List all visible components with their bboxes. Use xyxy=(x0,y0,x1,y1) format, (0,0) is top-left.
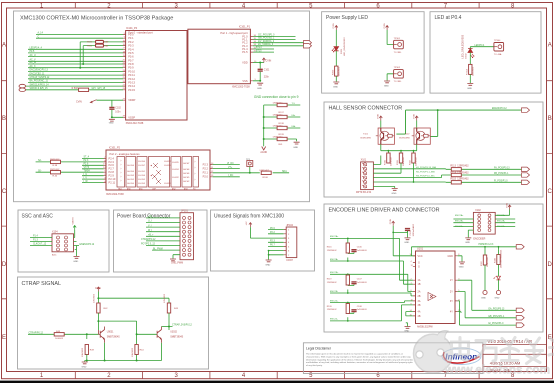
svg-text:VAG: VAG xyxy=(118,187,122,190)
section box HALL SENSOR CONNECTOR xyxy=(324,102,543,197)
transistor U3031 xyxy=(98,327,120,343)
wire bottom rail xyxy=(85,343,162,362)
svg-text:G0-CH0: G0-CH0 xyxy=(127,183,134,185)
svg-text:DNP0402: DNP0402 xyxy=(273,103,283,105)
wires into JP102 xyxy=(268,230,284,260)
svg-text:G0CH7: G0CH7 xyxy=(183,163,189,165)
svg-text:P0.14: P0.14 xyxy=(128,84,135,88)
svg-text:BCR108W: BCR108W xyxy=(361,138,372,140)
svg-text:VCC: VCC xyxy=(418,255,423,258)
svg-text:GND: GND xyxy=(465,242,470,244)
svg-text:of any third party.: of any third party. xyxy=(306,364,323,367)
resistor R117 xyxy=(483,255,486,265)
svg-text:10k/0603: 10k/0603 xyxy=(391,157,393,166)
svg-text:1000n/RAD2: 1000n/RAD2 xyxy=(412,223,415,236)
capacitor C102 xyxy=(109,107,114,109)
test point TP1 xyxy=(247,161,253,167)
net port flag FI xyxy=(522,180,530,184)
svg-text:C: C xyxy=(2,189,7,195)
svg-text:E: E xyxy=(2,335,6,341)
svg-text:CTRAP SIGNAL: CTRAP SIGNAL xyxy=(22,281,61,287)
svg-text:1Y: 1Y xyxy=(450,279,453,282)
svg-text:H1_POS/P0.13_INA: H1_POS/P0.13_INA xyxy=(416,166,436,169)
svg-text:P0.13: P0.13 xyxy=(128,80,135,84)
op-amp / MCU port IC101_P0 (Port 0) xyxy=(123,27,187,125)
IC101_P0 pin stubs xyxy=(123,35,126,118)
supply flag CVIN at T102 xyxy=(415,116,418,121)
connector JP101 (power board) xyxy=(171,210,194,265)
resistor R136 xyxy=(277,103,287,106)
svg-text:PWM/P0.12 t3: PWM/P0.12 t3 xyxy=(479,243,495,246)
net port flag EB xyxy=(516,316,524,320)
svg-text:D301: D301 xyxy=(341,48,343,54)
svg-text:VDD: VDD xyxy=(242,61,248,65)
supply flag CVIN at X102 xyxy=(508,205,511,210)
svg-text:FA_POS/P0.13: FA_POS/P0.13 xyxy=(494,166,510,169)
supply flag CVIN (CTRAP) xyxy=(97,287,100,292)
svg-text:LED/P0.4_4: LED/P0.4_4 xyxy=(30,48,43,50)
svg-text:G1-CH6: G1-CH6 xyxy=(138,175,145,177)
svg-text:TP301: TP301 xyxy=(394,38,401,40)
svg-text:www.elecfans.com: www.elecfans.com xyxy=(444,363,550,377)
wire base U3032 xyxy=(137,333,158,335)
svg-text:ENC2/ENC/P0.13: ENC2/ENC/P0.13 xyxy=(30,70,49,72)
svg-text:ENENC/P0.12: ENENC/P0.12 xyxy=(492,108,507,110)
svg-text:VDDP: VDDP xyxy=(128,98,135,102)
encoder input channel B resistor R119 network xyxy=(327,272,411,294)
svg-text:G0CH4: G0CH4 xyxy=(183,169,189,171)
supply flag CVIN at VDD xyxy=(253,62,264,64)
svg-text:H2_POS/P1.1_INB: H2_POS/P1.1_INB xyxy=(416,171,435,173)
net port flag P1.3 xyxy=(304,44,312,48)
net port flag ENENC xyxy=(522,108,530,112)
svg-text:EA_POS/P0.13: EA_POS/P0.13 xyxy=(489,307,506,310)
svg-text:P2.6: P2.6 xyxy=(109,163,115,167)
svg-text:P0.0: P0.0 xyxy=(128,33,134,37)
ground at TP302 xyxy=(384,81,390,83)
svg-text:XMC1302-T038: XMC1302-T038 xyxy=(232,86,250,89)
wire collector node T1 xyxy=(98,313,172,344)
svg-text:1B: 1B xyxy=(418,283,421,286)
svg-text:CVIN: CVIN xyxy=(384,23,386,29)
net labels for IC101_P0 wires xyxy=(30,32,51,90)
supply flag CVIN (testpoint column) xyxy=(386,26,389,31)
svg-text:4A: 4A xyxy=(418,311,421,314)
svg-text:AC_V: AC_V xyxy=(30,59,36,62)
section box Power Board Connector xyxy=(114,210,208,272)
svg-text:GND connection close to pin 9: GND connection close to pin 9 xyxy=(254,95,299,99)
svg-text:ENC2/CB2_11: ENC2/CB2_11 xyxy=(30,73,46,75)
svg-text:and liabilities of any kind, i: and liabilities of any kind, including w… xyxy=(306,361,413,364)
svg-text:GND: GND xyxy=(467,88,472,90)
svg-text:G1-0R4: G1-0R4 xyxy=(172,169,179,171)
svg-text:H3_POS/P1.0_INC: H3_POS/P1.0_INC xyxy=(416,176,435,178)
ground at ladder xyxy=(294,142,300,144)
svg-text:GND: GND xyxy=(82,366,87,368)
MCU port IC101_P1 (Port 1) xyxy=(188,26,257,89)
net port flag P1.2 xyxy=(304,41,312,45)
svg-text:ENC2Z-: ENC2Z- xyxy=(497,226,505,228)
svg-text:G1-0R5: G1-0R5 xyxy=(172,162,179,164)
resistor R110 xyxy=(387,153,390,163)
wires into X104 xyxy=(30,230,79,246)
svg-text:P0.7: P0.7 xyxy=(270,245,275,247)
svg-text:2A/_RADIOA_2: 2A/_RADIOA_2 xyxy=(258,40,275,43)
encoder input channel A resistor R116 network xyxy=(327,235,404,262)
wire VSSP xyxy=(112,110,123,118)
svg-text:JP101: JP101 xyxy=(181,210,188,213)
net labels JP102 xyxy=(270,228,275,247)
svg-text:AC_X: AC_X xyxy=(30,65,36,68)
svg-text:ENC2A+: ENC2A+ xyxy=(330,235,339,238)
connector X102 (encoder header) xyxy=(473,209,495,240)
svg-text:R303: R303 xyxy=(332,69,334,75)
svg-text:B: B xyxy=(2,116,6,122)
wire hall +5V rail to ENENC flag xyxy=(396,110,521,136)
svg-text:ENC2B+: ENC2B+ xyxy=(455,221,464,223)
transistor U3032 xyxy=(157,327,184,343)
hall input net labels xyxy=(416,166,436,178)
frame column numbers bottom xyxy=(40,373,515,379)
svg-text:IC101_P2: IC101_P2 xyxy=(109,147,121,150)
svg-text:C106: C106 xyxy=(357,247,363,249)
ground at R304 xyxy=(467,84,473,86)
svg-text:1k5/0603: 1k5/0603 xyxy=(339,66,341,76)
svg-text:P0.5: P0.5 xyxy=(30,51,35,53)
resistor R508 xyxy=(79,88,89,91)
svg-text:BCR108W: BCR108W xyxy=(399,138,410,140)
svg-text:R.38: R.38 xyxy=(53,165,58,167)
frame row letters left/right xyxy=(2,43,553,342)
svg-text:GND: GND xyxy=(404,242,409,244)
Infineon logo xyxy=(442,348,481,364)
wire R304 to GND xyxy=(469,74,471,83)
svg-text:120RS402: 120RS402 xyxy=(487,256,489,267)
test point TP304 xyxy=(494,43,504,52)
svg-text:T.3-: T.3- xyxy=(292,103,296,105)
svg-text:P2.0: P2.0 xyxy=(203,175,209,179)
svg-text:ENC2A-: ENC2A- xyxy=(497,214,505,217)
svg-text:GND: GND xyxy=(265,264,270,266)
svg-text:G0-CH3: G0-CH3 xyxy=(127,175,134,177)
svg-text:VDD5V: VDD5V xyxy=(73,217,75,225)
svg-text:R115 129RS402: R115 129RS402 xyxy=(450,178,469,181)
svg-text:AC_U: AC_U xyxy=(30,54,36,57)
svg-text:DNP0402: DNP0402 xyxy=(260,170,270,172)
svg-text:SMBT3904S: SMBT3904S xyxy=(170,336,183,338)
svg-text:1k/0603: 1k/0603 xyxy=(55,338,64,340)
section box XMC1300 xyxy=(14,11,310,202)
connector pad MP1 xyxy=(19,84,26,88)
svg-text:G0-CH5: G0-CH5 xyxy=(127,179,134,181)
svg-text:XMC1300 CORTEX-M0 Microcontrol: XMC1300 CORTEX-M0 Microcontroller in TSS… xyxy=(20,16,173,22)
svg-text:P0.15: P0.15 xyxy=(128,88,135,92)
svg-text:GND_PWM: GND_PWM xyxy=(171,262,183,264)
svg-text:Legal Disclaimer: Legal Disclaimer xyxy=(306,346,332,350)
svg-text:3A: 3A xyxy=(418,300,421,303)
svg-text:100n: 100n xyxy=(115,112,121,114)
wire vertical net risers xyxy=(80,42,83,68)
svg-text:ENC2B+: ENC2B+ xyxy=(330,272,339,274)
svg-text:G0-CH4: G0-CH4 xyxy=(127,171,134,173)
resistor R112 xyxy=(412,153,415,163)
section box Power Supply LED xyxy=(322,12,425,93)
svg-text:Port 1 - high-speed port: Port 1 - high-speed port xyxy=(220,31,248,35)
transistor T101 (BCR108W) xyxy=(361,128,395,144)
svg-text:TO 38IL: TO 38IL xyxy=(394,52,403,54)
svg-text:CVIN: CVIN xyxy=(95,287,101,290)
svg-text:R113 129RS402: R113 129RS402 xyxy=(450,165,469,168)
svg-text:AN3: AN3 xyxy=(184,187,188,190)
svg-text:P2.3: P2.3 xyxy=(84,160,89,162)
svg-text:1A: 1A xyxy=(418,279,421,282)
svg-text:I2C_POS/3P1.0: I2C_POS/3P1.0 xyxy=(258,35,275,37)
svg-text:EB_POS/1P1.1: EB_POS/1P1.1 xyxy=(489,316,506,318)
net port flag FB xyxy=(522,173,530,177)
svg-text:B: B xyxy=(548,116,552,122)
svg-text:10k/0603: 10k/0603 xyxy=(403,157,405,166)
svg-text:P0.6: P0.6 xyxy=(128,55,134,59)
legal disclaimer box xyxy=(303,343,483,374)
svg-text:P0.12: P0.12 xyxy=(128,77,135,81)
svg-text:W_I: W_I xyxy=(148,230,152,232)
svg-text:GND: GND xyxy=(293,147,298,149)
svg-text:CVIN: CVIN xyxy=(414,113,416,119)
svg-text:GPI GPI_15: GPI GPI_15 xyxy=(92,88,106,90)
svg-text:BA_POS/ENC_11: BA_POS/ENC_11 xyxy=(30,80,49,83)
svg-text:R138: R138 xyxy=(279,123,285,125)
svg-text:R112: R112 xyxy=(410,159,412,165)
solder pad TP (LED) xyxy=(496,290,500,294)
svg-text:G: G xyxy=(418,261,420,264)
net labels P1 xyxy=(256,35,275,53)
svg-text:DA-: DA- xyxy=(292,114,296,117)
svg-text:C101: C101 xyxy=(264,69,270,71)
svg-text:CON7: CON7 xyxy=(286,259,293,262)
wire PWM net xyxy=(412,247,517,256)
IC101_P2 pin stubs right xyxy=(210,165,213,177)
legal disclaimer text xyxy=(306,353,413,367)
section box Unused Signals from XMC1300 xyxy=(211,210,315,271)
IC101_P1 pin stubs xyxy=(250,36,253,80)
svg-text:G1-CH0: G1-CH0 xyxy=(138,161,145,163)
svg-text:R120: R120 xyxy=(327,306,333,308)
svg-text:DNP0402: DNP0402 xyxy=(273,137,283,139)
wire bundle into IC101_P2 left pins xyxy=(36,158,104,182)
wire CVIN to U101 VCC xyxy=(393,226,415,256)
ground at C101 xyxy=(257,83,263,85)
line driver IC U101 xyxy=(410,248,462,329)
ground at JP102 xyxy=(266,260,272,262)
svg-text:MPT0.5/6-2.54: MPT0.5/6-2.54 xyxy=(356,192,372,194)
connector X101 xyxy=(356,159,373,194)
wire GND to TP302 xyxy=(387,74,394,81)
svg-text:P1.3: P1.3 xyxy=(33,240,38,242)
test point TP301 xyxy=(394,40,404,49)
svg-text:GND: GND xyxy=(384,85,389,87)
svg-text:G1-CH7: G1-CH7 xyxy=(138,165,145,167)
svg-text:CTRAP/P0.12: CTRAP/P0.12 xyxy=(141,238,156,241)
svg-text:CVIN: CVIN xyxy=(266,60,272,63)
svg-text:DNP0402: DNP0402 xyxy=(50,169,60,171)
svg-text:Power Board Connector: Power Board Connector xyxy=(117,214,171,220)
svg-text:G0CH5: G0CH5 xyxy=(183,177,189,179)
resistor R42 xyxy=(97,303,100,313)
wire T101/T102 emitters down xyxy=(381,144,417,153)
wire CVIN to T101 xyxy=(380,121,382,129)
svg-text:1k5/0603: 1k5/0603 xyxy=(473,66,475,76)
wire R117 to pad xyxy=(484,265,486,290)
watermark (elecfans) xyxy=(414,331,554,377)
svg-text:GND: GND xyxy=(73,261,78,263)
svg-text:P2.8: P2.8 xyxy=(109,170,115,174)
svg-text:2B: 2B xyxy=(418,295,421,298)
ground at C105 xyxy=(405,238,411,240)
wire input CTRAP xyxy=(28,334,98,339)
resistor R48 xyxy=(54,333,64,336)
wire CVIN to TP301 xyxy=(387,30,394,45)
svg-text:2A: 2A xyxy=(418,291,421,294)
LED V101 string xyxy=(497,255,500,265)
resistor R40 xyxy=(51,171,61,174)
svg-text:TP302: TP302 xyxy=(394,67,401,69)
resistor R137 xyxy=(277,115,287,118)
svg-text:17k/0603: 17k/0603 xyxy=(94,293,96,303)
svg-text:10k/0603: 10k/0603 xyxy=(132,347,134,357)
svg-text:R137: R137 xyxy=(279,112,285,114)
svg-text:ENC2B-: ENC2B- xyxy=(497,221,505,223)
svg-text:Power Supply LED: Power Supply LED xyxy=(326,15,368,21)
svg-text:HALL SENSOR CONNECTOR: HALL SENSOR CONNECTOR xyxy=(329,106,403,112)
svg-text:GND: GND xyxy=(404,331,409,333)
svg-text:120RS402: 120RS402 xyxy=(327,250,338,252)
svg-text:C102: C102 xyxy=(115,107,121,109)
svg-text:I_DC: I_DC xyxy=(228,175,234,177)
svg-text:P2.3: P2.3 xyxy=(109,160,115,164)
svg-text:120RS402: 120RS402 xyxy=(327,309,338,311)
svg-text:T101: T101 xyxy=(363,133,369,135)
resistor R303 xyxy=(335,66,338,76)
svg-text:U3031: U3031 xyxy=(107,332,114,334)
wire U101 GND xyxy=(458,256,462,262)
svg-text:P0.2: P0.2 xyxy=(128,40,134,44)
wire +5V riser to JP102 xyxy=(250,227,286,238)
svg-text:ST_4: ST_4 xyxy=(84,157,90,159)
wire CVIN to LED D301 xyxy=(335,30,337,47)
svg-text:U_I: U_I xyxy=(148,221,152,223)
svg-text:P0.10: P0.10 xyxy=(128,69,135,73)
resistor R38 xyxy=(51,160,61,163)
svg-text:P2.6: P2.6 xyxy=(84,164,89,166)
supply flag VDD5V at X104 xyxy=(73,226,76,231)
wire bundle from IC101_P1 right pins xyxy=(253,36,304,52)
svg-text:VSSP: VSSP xyxy=(128,115,135,119)
supply flag CVIN (encoder) xyxy=(392,221,395,226)
net port flag EI xyxy=(516,323,524,327)
svg-text:1n50/0603: 1n50/0603 xyxy=(357,250,368,252)
svg-text:P1.4: P1.4 xyxy=(33,236,38,238)
svg-text:R118: R118 xyxy=(494,257,496,263)
svg-text:FB10: FB10 xyxy=(87,42,93,44)
svg-text:2C_TADIOA_3: 2C_TADIOA_3 xyxy=(258,43,274,46)
svg-text:GND: GND xyxy=(333,86,338,88)
wire CTRAP top rail xyxy=(98,292,169,304)
connector JP102 xyxy=(284,224,297,262)
svg-text:P2.1: P2.1 xyxy=(203,171,209,175)
svg-text:G0CH2: G0CH2 xyxy=(183,181,189,183)
svg-text:GND: GND xyxy=(495,298,500,300)
svg-text:AC_W: AC_W xyxy=(30,61,37,64)
net labels P2 right xyxy=(227,163,287,177)
svg-text:U3032: U3032 xyxy=(170,332,177,334)
ferrite bead FB101 xyxy=(96,40,104,43)
svg-text:C108: C108 xyxy=(357,306,363,308)
svg-text:BT15: BT15 xyxy=(256,50,262,52)
svg-text:P0.3: P0.3 xyxy=(128,44,134,48)
wires X101 to resistor rows xyxy=(373,156,445,189)
IC101_P0 pin numbers xyxy=(123,33,126,118)
svg-text:VT73: VT73 xyxy=(84,167,90,169)
connector pad MP2 xyxy=(19,88,26,92)
svg-text:ENCODER LINE DRIVER AND CONNEC: ENCODER LINE DRIVER AND CONNECTOR xyxy=(329,208,440,214)
svg-text:characteristics. With respect: characteristics. With respect to any exa… xyxy=(306,356,412,359)
svg-text:3B: 3B xyxy=(418,304,421,307)
svg-text:AM26LS32PW: AM26LS32PW xyxy=(417,325,433,328)
wire U3032 collector to node xyxy=(162,326,170,328)
svg-text:SWDIO.0.925_15: SWDIO.0.925_15 xyxy=(30,88,49,90)
svg-text:IC101_P1: IC101_P1 xyxy=(239,26,251,29)
svg-text:DNP0402: DNP0402 xyxy=(273,115,283,117)
svg-text:P2.7: P2.7 xyxy=(109,167,115,171)
MCU port IC101_P2 (Port 2) xyxy=(103,147,214,197)
wire LED/P0.4 to TP304 xyxy=(470,47,494,49)
svg-text:TP304: TP304 xyxy=(494,40,501,42)
capacitor C105 xyxy=(405,229,410,231)
svg-text:S0-: S0- xyxy=(38,170,42,172)
svg-text:LED/P0.4: LED/P0.4 xyxy=(475,45,486,47)
svg-text:ISB_POS/101.1: ISB_POS/101.1 xyxy=(258,38,275,40)
svg-text:R.40: R.40 xyxy=(53,176,58,178)
section box ENCODER LINE DRIVER AND CONNECTOR xyxy=(324,204,543,332)
svg-text:G: G xyxy=(418,266,420,269)
ground at R303 xyxy=(333,82,339,84)
svg-text:P0.4: P0.4 xyxy=(128,47,134,51)
resistor R141 xyxy=(277,137,287,140)
svg-text:C107: C107 xyxy=(357,279,363,281)
svg-text:D302: D302 xyxy=(466,53,468,59)
svg-text:CVIN: CVIN xyxy=(390,219,392,225)
svg-text:IC101_P0: IC101_P0 xyxy=(126,27,138,30)
connector X104 (SSC/ASC header) xyxy=(52,231,74,257)
encoder input channel Z resistor R120 network xyxy=(327,300,405,322)
resistor R138 xyxy=(277,126,287,129)
svg-text:GND: GND xyxy=(447,255,453,258)
svg-text:1n50/0603: 1n50/0603 xyxy=(357,282,368,284)
ground at C102 xyxy=(109,119,115,121)
svg-text:G1-CH5: G1-CH5 xyxy=(138,179,145,181)
supply flag CVIN (power supply LED left) xyxy=(335,26,338,31)
svg-text:CVIN: CVIN xyxy=(378,113,380,119)
svg-text:BAT: BAT xyxy=(104,41,109,44)
wire VSS xyxy=(253,72,260,81)
svg-text:GND: GND xyxy=(392,193,397,195)
wires into X102 xyxy=(453,215,515,237)
section box CTRAP SIGNAL xyxy=(18,277,209,369)
svg-text:XMC1302-T038: XMC1302-T038 xyxy=(126,122,144,125)
svg-text:DNP0402: DNP0402 xyxy=(50,159,60,161)
svg-text:R108: R108 xyxy=(263,177,269,179)
svg-text:ENCODER: ENCODER xyxy=(473,237,485,240)
